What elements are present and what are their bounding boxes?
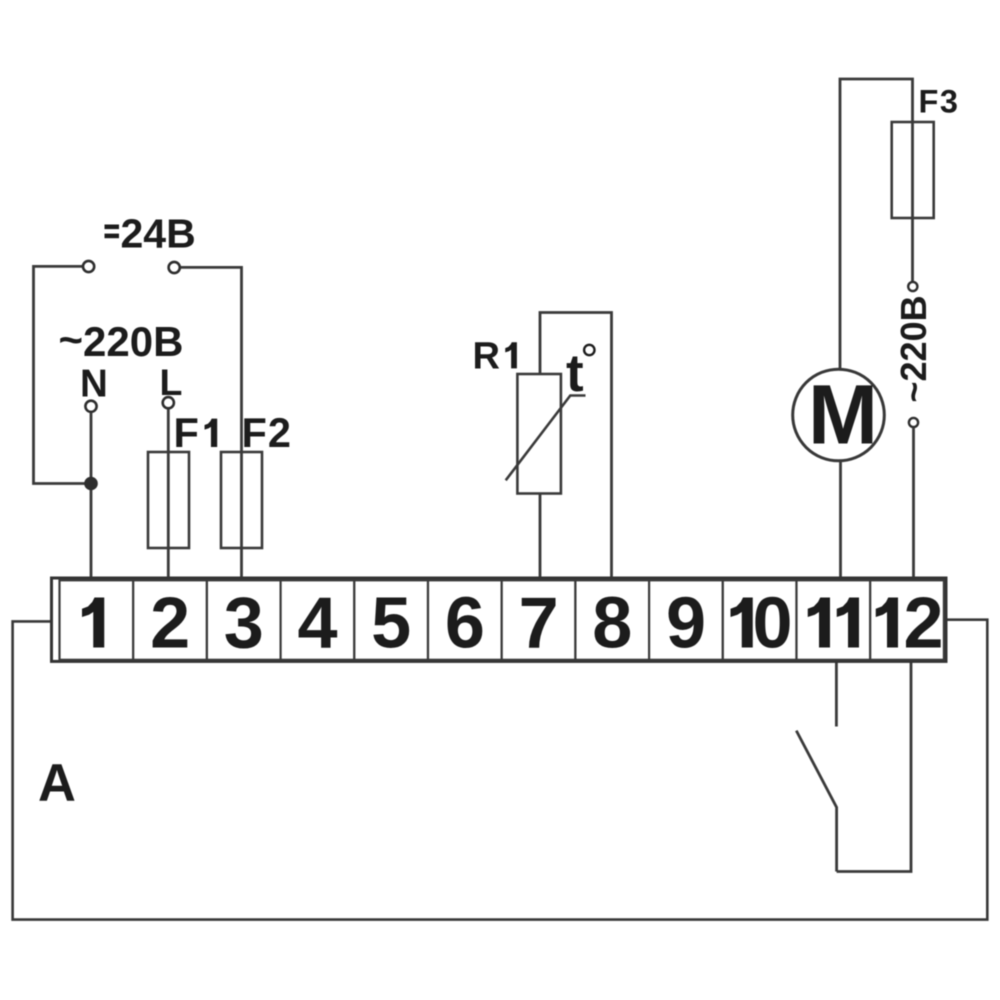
svg-text:M: M (808, 367, 878, 461)
svg-text:F2: F2 (242, 409, 291, 456)
label R1 (473, 335, 517, 377)
fuse F2 body (221, 452, 262, 548)
switch fixed contact wire from terminal 11 (835, 662, 838, 727)
wire thermistor branch top bar and down to terminal 8 (540, 313, 612, 579)
terminal circle ~220V bottom (909, 418, 918, 427)
terminal circle N (85, 401, 96, 412)
svg-text:R: R (473, 335, 500, 377)
svg-text:24В: 24В (121, 210, 196, 256)
thermistor R1 body (517, 374, 561, 494)
svg-text:0: 0 (752, 584, 792, 664)
label =24V equals sign (105, 225, 120, 239)
switch blade (796, 731, 836, 872)
svg-text:3: 3 (224, 584, 264, 664)
svg-text:2: 2 (150, 584, 190, 664)
terminal circle =24V right (169, 262, 180, 273)
fuse F1 body (148, 452, 189, 548)
wire R1 bottom to terminal 7 (539, 494, 542, 579)
label F1 (174, 409, 218, 456)
svg-text:4: 4 (297, 584, 337, 664)
motor M circle (793, 369, 885, 461)
svg-text:t: t (566, 344, 584, 403)
degree mark of t (584, 345, 594, 355)
svg-text:~220В: ~220В (59, 316, 184, 365)
terminal number 10 (731, 584, 793, 664)
svg-text:8: 8 (592, 584, 632, 664)
svg-text:F3: F3 (919, 84, 958, 120)
wire motor bottom to terminal 11 (839, 461, 842, 579)
terminal number 11 (808, 598, 859, 648)
svg-text:F: F (174, 409, 199, 456)
terminal number 1 (82, 598, 104, 648)
switch bottom wire to terminal 12 (837, 662, 911, 872)
wire motor branch top bar through fuse F3 (840, 79, 913, 370)
wire =24V right terminal through F2 to terminal 3 (181, 267, 242, 578)
wire =24V left terminal to junction node (34, 266, 90, 483)
junction dot node (84, 477, 98, 491)
terminal block outer box (52, 578, 947, 661)
terminal circle ~220V top (908, 282, 917, 291)
svg-text:A: A (38, 754, 76, 813)
wire N to terminal 1 (90, 413, 93, 579)
thermistor R1 diagonal stroke (506, 396, 586, 481)
terminal circle L (163, 397, 174, 408)
svg-text:5: 5 (371, 584, 411, 664)
wire L through F1 to terminal 2 (167, 409, 170, 578)
terminal number 12 (876, 584, 944, 664)
terminal circle =24V left (83, 261, 94, 272)
svg-text:N: N (80, 363, 108, 406)
svg-text:~220В: ~220В (893, 295, 934, 402)
wire ~220V bottom circle to terminal 12 (912, 428, 915, 579)
svg-text:6: 6 (445, 584, 485, 664)
svg-text:2: 2 (903, 584, 943, 664)
enclosure A outline (13, 620, 988, 920)
fuse F3 body (892, 122, 934, 218)
svg-text:9: 9 (666, 584, 706, 664)
svg-text:7: 7 (519, 584, 559, 664)
terminal block cells 1-12 (60, 580, 944, 660)
